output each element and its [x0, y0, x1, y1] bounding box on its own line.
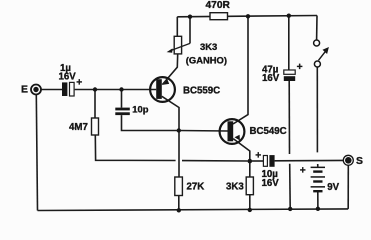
wire S terminal ground lead — [347, 165, 349, 209]
battery long plate 3 — [311, 186, 325, 188]
capacitor 10p: top plate — [115, 108, 130, 111]
wire 10u cap to S terminal — [275, 159, 344, 161]
trimpot wiper diagonal — [171, 43, 191, 50]
wire E ground lead down — [36, 94, 37, 210]
wire 3K3 bottom lead — [249, 195, 251, 210]
node on top rail at 47u — [287, 14, 291, 18]
wire 1u cap to Q1 base — [75, 89, 157, 91]
svg-text:S: S — [356, 156, 363, 167]
resistor 4M7 — [92, 118, 99, 135]
wire 10p top lead — [121, 90, 123, 108]
wire node to 10u cap — [252, 160, 264, 162]
wire feedback run right of crossing to Q2 emitter node — [182, 160, 248, 162]
capacitor 10u: filled plate — [269, 155, 274, 167]
node rail at 47u — [288, 207, 292, 211]
svg-text:BC559C: BC559C — [183, 86, 220, 97]
wire 10p bottom lead to Q1 collector node — [122, 115, 179, 130]
battery long plate 2 — [311, 176, 325, 178]
node rail at 3K3 — [248, 208, 252, 212]
wire wiper vertical from top rail node — [189, 17, 191, 44]
svg-text:470R: 470R — [206, 0, 231, 11]
wire trimpot top lead — [176, 17, 178, 37]
wire 47u lead below crossing to bottom rail — [289, 164, 292, 209]
battery short plate 2 — [313, 180, 322, 182]
svg-text:3K3: 3K3 — [200, 41, 217, 52]
transistor Q2 base bar — [228, 121, 234, 141]
wire Q2 emitter node to 3K3 — [249, 161, 251, 177]
svg-text:10p: 10p — [132, 104, 148, 115]
wire battery top lead below crossing — [317, 164, 319, 167]
wire 4M7 bottom lead and feedback run — [95, 135, 175, 161]
transistor Q1 emitter arrow (PNP, points toward bar) — [163, 80, 169, 85]
wire Q1 collector diagonal and vertical to bottom rail — [162, 96, 179, 177]
switch S1 lower contact — [314, 61, 320, 67]
transistor Q1 base bar — [156, 79, 162, 99]
wire 47u top lead — [288, 16, 290, 70]
node rail at battery — [316, 207, 320, 211]
wire 47u bottom lead above S line crossing — [288, 81, 290, 154]
capacitor 1u: open plate — [70, 82, 75, 96]
transistor Q2 emitter arrow (NPN, points outward) — [235, 135, 240, 141]
transistor Q1 BC559C circle — [150, 77, 175, 102]
transistor Q2 BC549C circle — [220, 119, 245, 144]
svg-text:3K3: 3K3 — [226, 182, 244, 193]
wire Q1 emitter diagonal and vertical — [162, 54, 177, 85]
node rail at 27K — [177, 208, 181, 212]
resistor 470R — [210, 13, 228, 20]
svg-text:+: + — [300, 166, 306, 177]
node Q2 emitter — [248, 159, 253, 164]
svg-text:16V: 16V — [59, 72, 77, 83]
wire 4M7 top lead — [94, 90, 96, 119]
capacitor 1u electrolytic: filled plate — [62, 82, 67, 96]
wire switch top lead — [316, 16, 318, 41]
wire Q2 collector vertical — [233, 17, 248, 125]
svg-text:+: + — [297, 62, 303, 73]
wire Q2 base from node — [179, 130, 228, 133]
terminal E — [31, 85, 41, 95]
wire bottom ground rail — [38, 209, 349, 211]
battery short plate 3 — [313, 190, 322, 192]
capacitor 10p: bottom plate — [115, 112, 130, 115]
switch S1 upper contact — [314, 40, 320, 46]
wire top rail — [177, 16, 317, 17]
wire 27K bottom lead — [178, 196, 180, 211]
svg-text:BC549C: BC549C — [250, 126, 287, 137]
node on top rail at wiper (junction dot) — [188, 15, 192, 19]
wire Q2 emitter diagonal down to node — [233, 139, 250, 162]
resistor 27K — [175, 177, 183, 196]
svg-text:16V: 16V — [262, 73, 280, 84]
node on top rail at Q2 collector — [246, 14, 250, 18]
wire battery bottom lead — [317, 192, 319, 209]
wire E input to 1u cap — [41, 89, 62, 91]
capacitor 10u: open plate — [263, 156, 267, 167]
svg-text:(GANHO): (GANHO) — [186, 55, 227, 66]
capacitor 47u: filled plate (bottom) — [284, 76, 295, 81]
svg-text:+: + — [255, 150, 261, 161]
trimpot 3K3 (GANHO) body — [174, 36, 181, 54]
trimpot wiper arrowhead — [167, 48, 173, 52]
resistor 3K3 (emitter) — [246, 177, 253, 195]
svg-text:+: + — [76, 78, 82, 89]
switch S1 lever arrow — [319, 51, 326, 60]
wire switch lower lead above crossing — [316, 67, 318, 152]
node input at 10p — [119, 87, 123, 91]
capacitor 47u: open plate (top) — [284, 70, 295, 74]
terminal S — [343, 155, 353, 165]
node Q1 collector / Q2 base — [177, 128, 181, 132]
svg-text:16V: 16V — [262, 178, 280, 189]
svg-text:27K: 27K — [187, 182, 205, 193]
svg-text:9V: 9V — [327, 182, 339, 193]
battery B1 9V: long plate 1 — [311, 167, 325, 169]
node input at 4M7 — [93, 87, 97, 91]
svg-text:E: E — [21, 85, 28, 96]
battery short plate 1 — [313, 170, 322, 172]
svg-text:4M7: 4M7 — [69, 122, 88, 133]
